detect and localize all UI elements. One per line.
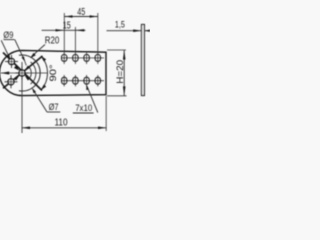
angular dimension arc 90 (41, 56, 48, 90)
slot 7x10 top row col4 (95, 54, 100, 61)
svg-text:1,5: 1,5 (115, 19, 125, 30)
dim 110 line (22, 127, 106, 129)
arrowheads converging at center hole (14, 66, 20, 71)
dim H=20 extension bottom (107, 95, 127, 97)
inner arc r9.3 (29, 67, 31, 79)
svg-text:H=20: H=20 (115, 60, 126, 84)
dim H=20 extension top (107, 49, 126, 51)
angular arc arrow bottom (41, 85, 47, 91)
slot 7x10 bottom row col1 (62, 77, 67, 84)
hole lower left (8, 79, 14, 85)
slot vertical centerlines bottom row (63, 75, 65, 86)
slot 7x10 top row col2 (73, 54, 78, 61)
vertical centerline of round end / 110 left extension (21, 62, 23, 133)
dim 45 extension right (97, 13, 99, 53)
slot 7x10 bottom row col2 (73, 77, 78, 84)
arrowhead at left edge on horizontal centerline (1, 72, 9, 75)
dim 45 extension left (63, 13, 65, 53)
slot row centerline bottom (62, 80, 105, 82)
svg-text:15: 15 (63, 20, 71, 31)
svg-text:110: 110 (55, 118, 68, 129)
plate outline (0, 50, 106, 95)
slot 7x10 bottom row col3 (84, 77, 89, 84)
dim 1,5 (107, 30, 142, 32)
svg-text:Ø7: Ø7 (49, 102, 59, 113)
horizontal centerline of round end (1, 72, 49, 74)
slot vertical centerlines top row (63, 53, 65, 64)
dim 45 line (64, 16, 98, 18)
angular arc arrow top (41, 56, 47, 62)
dim H=20 line (123, 50, 125, 95)
svg-text:7x10: 7x10 (75, 103, 92, 113)
radial centerline through upper hole (3, 53, 42, 91)
side view thin bar (142, 25, 145, 96)
slot 7x10 bottom row col4 (95, 77, 100, 84)
slot row centerline top (62, 57, 105, 59)
slot 7x10 top row col3 (84, 54, 89, 61)
dim 15 line with outside arrows (42, 29, 86, 31)
dim 110 extension right (105, 96, 107, 131)
hole upper left (9, 59, 15, 65)
radial centerline through lower hole (3, 56, 43, 88)
svg-text:R20: R20 (45, 35, 60, 46)
slot 7x10 top row col1 (62, 54, 67, 61)
hole center (Ø9) (19, 70, 25, 76)
svg-text:90°: 90° (48, 64, 58, 81)
arc R20 (bend line) (19, 55, 40, 91)
svg-text:45: 45 (77, 7, 85, 18)
arc r14 (31, 62, 36, 84)
dim 15 extension right (74, 27, 76, 53)
